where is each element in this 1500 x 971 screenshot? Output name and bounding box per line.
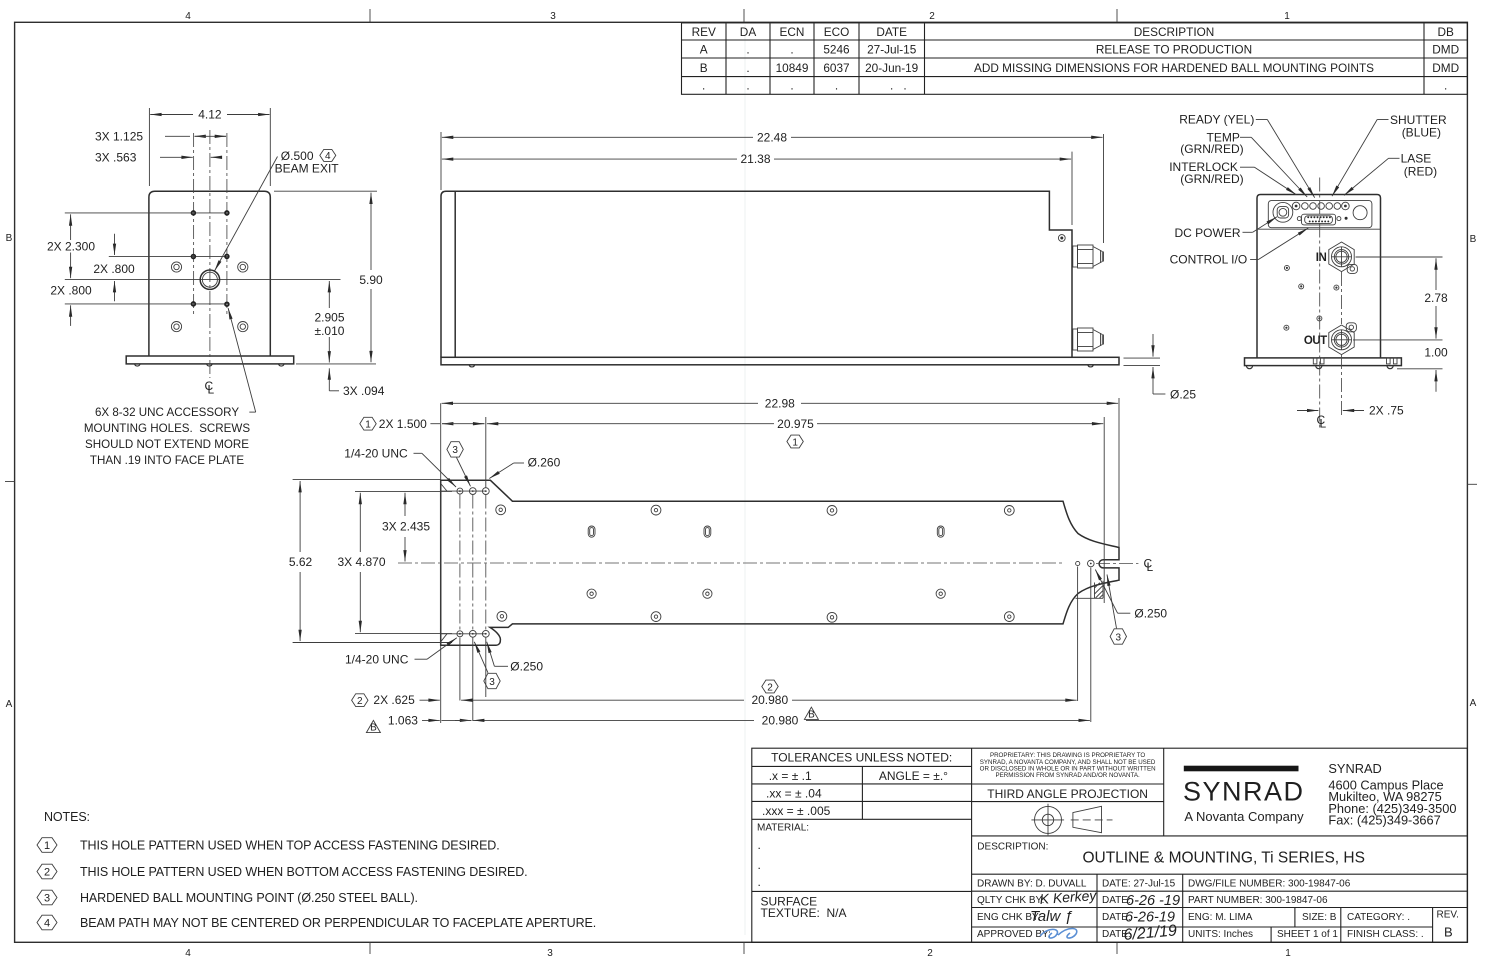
label dia .250 bottom with leader [487,642,544,674]
svg-text:MOUNTING HOLES. SCREWS: MOUNTING HOLES. SCREWS [84,422,250,435]
svg-text:3: 3 [44,893,50,905]
svg-text:TOLERANCES UNLESS NOTED:: TOLERANCES UNLESS NOTED: [771,751,952,765]
svg-text:THAN .19 INTO FACE PLATE: THAN .19 INTO FACE PLATE [90,454,244,467]
svg-text:L: L [208,383,215,397]
svg-text:4.12: 4.12 [198,108,222,122]
svg-text:.: . [746,61,749,75]
side view upper fitting [1073,245,1104,268]
svg-text:IN: IN [1316,252,1327,264]
front view faceplate outline [149,191,270,356]
note 4 hexagon [37,915,596,930]
rear view DC power connector [1273,202,1293,222]
label 1/4-20 UNC top [344,446,456,487]
projection symbol [1031,804,1112,836]
side view faceplate edge [441,191,455,357]
svg-text:MATERIAL:: MATERIAL: [757,822,809,833]
front view 8-32 hole 4 [225,255,229,259]
note 3 hexagon [37,890,418,905]
dimension 5.90 [274,191,383,362]
svg-text:2: 2 [767,682,773,693]
rear view centerline symbol [1317,413,1327,431]
bottom view chamfer top-left [441,484,447,492]
svg-text:3X .094: 3X .094 [343,384,385,398]
svg-text:ENG: M. LIMA: ENG: M. LIMA [1188,912,1253,923]
side view body outline [455,191,1072,357]
svg-text:THIRD ANGLE PROJECTION: THIRD ANGLE PROJECTION [987,787,1148,801]
svg-text:20.980: 20.980 [762,713,799,727]
revision table row B [700,61,1459,75]
svg-text:RELEASE TO PRODUCTION: RELEASE TO PRODUCTION [1096,43,1252,57]
proprietary paragraph [980,752,1156,779]
svg-text:2X .75: 2X .75 [1369,404,1404,418]
dimension 2X 2.300 [47,214,95,278]
front view base flange [126,356,294,364]
leader temp [1240,136,1251,138]
zone tick bottom 1/2 [1116,942,1118,954]
leader ready [1256,119,1268,121]
svg-text:.: . [790,79,793,93]
svg-text:Ø.260: Ø.260 [528,455,561,469]
bottom view ring hole bot 4 [1004,612,1014,622]
rear view hole a [1284,265,1289,270]
leader lase [1389,157,1400,159]
svg-text:HARDENED BALL MOUNTING POINT (: HARDENED BALL MOUNTING POINT (Ø.250 STEE… [80,891,418,905]
svg-text:2X .625: 2X .625 [373,693,415,707]
svg-text:.: . [1444,79,1447,93]
svg-text:REV: REV [692,25,716,39]
dimension 21.38 [442,152,1072,225]
zone tick top 3/4 [369,9,371,22]
rear view flange slot center right [1320,358,1324,364]
svg-text:B: B [6,233,13,244]
bottom view chamfer bottom-left [441,634,447,642]
svg-text:.xxx = ± .005: .xxx = ± .005 [762,804,831,818]
svg-text:6-26 -19: 6-26 -19 [1126,893,1180,909]
dimension 3X .563 [95,150,222,164]
side view foot right [1088,365,1094,367]
svg-text:2: 2 [927,948,933,959]
front view ring hole lower-right [238,322,248,332]
svg-text:.: . [746,43,749,57]
svg-text:1/4-20 UNC: 1/4-20 UNC [345,652,409,666]
bottom view 1/4-20 hole T1 [457,488,463,494]
rear view DB15 jack screw left [1297,217,1301,221]
bottom view 1/4-20 hole B2 [469,630,476,637]
hexagon 3 bottom with leader [474,642,500,689]
column line nozzle hole2 [1090,568,1092,723]
note 6X 8-32 UNC accessory mounting holes [84,406,250,467]
svg-text:DATE: DATE [876,25,907,39]
svg-text:THIS HOLE PATTERN USED WHEN TO: THIS HOLE PATTERN USED WHEN TOP ACCESS F… [80,839,500,853]
bottom view ring hole mid 3 [936,589,945,598]
svg-text:.x = ± .1: .x = ± .1 [769,769,812,783]
svg-text:OUT: OUT [1304,335,1327,347]
label dia .260 with leader [489,455,560,478]
svg-text:3X .563: 3X .563 [95,150,137,164]
front view foot 3 [279,364,285,366]
svg-text:4: 4 [44,918,50,930]
bottom view 1/4-20 hole B3 [482,630,489,637]
bottom view ring hole bot 2 [651,612,661,622]
rear view hole e [1284,325,1289,330]
svg-text:Ø.250: Ø.250 [510,660,543,674]
svg-text:3: 3 [547,948,553,959]
zone tick bottom 2/3 [743,942,745,954]
dimension 1.063 row B with triangle [366,713,471,733]
front view row line middle holes [109,255,229,257]
bottom view ring hole top 2 [651,505,661,515]
svg-text:SYNRAD: SYNRAD [1183,777,1305,807]
rear view LED ready [1292,202,1300,210]
svg-text:10849: 10849 [776,61,809,75]
svg-text:SHOULD NOT EXTEND MORE: SHOULD NOT EXTEND MORE [85,438,249,451]
revision table grid [682,23,1468,94]
label 1/4-20 UNC bottom [345,638,457,667]
svg-text:2.78: 2.78 [1424,291,1448,305]
svg-text:1: 1 [1285,948,1291,959]
bottom view horizontal centerline [398,562,1065,564]
bottom view nozzle ball hole [1088,560,1095,567]
rear view fitting centerline [1341,272,1343,324]
svg-text:3: 3 [489,677,495,688]
svg-text:.: . [702,79,705,93]
dimension 20.980 row B with triangle [473,707,1090,727]
svg-text:ANGLE = ±.°: ANGLE = ±.° [879,769,948,783]
bottom view 1/4-20 hole T3 [482,488,489,495]
svg-text:ECO: ECO [824,25,850,39]
svg-text:Fax: (425)349-3667: Fax: (425)349-3667 [1328,813,1440,828]
svg-text:.: . [835,79,838,93]
svg-text:SIZE: B: SIZE: B [1302,912,1337,923]
front view centerline symbol [205,379,215,397]
rear view shutter aperture circle [1353,206,1367,220]
svg-text:PERMISSION FROM SYNRAD AND/OR: PERMISSION FROM SYNRAD AND/OR NOVANTA. [996,772,1140,779]
front view foot 1 [135,364,141,366]
svg-text:L: L [1147,560,1154,574]
bottom view slot 3 [937,526,944,537]
svg-text:(GRN/RED): (GRN/RED) [1180,142,1243,156]
bottom view ring hole top 4 [1004,506,1014,516]
svg-text:DMD: DMD [1432,43,1459,57]
svg-text:.xx = ± .04: .xx = ± .04 [766,786,822,800]
bottom view plate outline [441,480,1119,645]
svg-text:NOTES:: NOTES: [44,810,90,824]
bottom view slot 1 [588,526,595,537]
dimension 2X 1.500 with hexagon 1 [360,417,485,431]
svg-text:B: B [1470,234,1477,245]
leader control io [1250,259,1258,261]
svg-text:L: L [1320,417,1327,431]
dimension 2.78 [1353,257,1448,340]
svg-text:5.90: 5.90 [359,273,383,287]
svg-text:6037: 6037 [823,61,849,75]
rear view foot left [1246,366,1252,369]
svg-text:.: . [903,79,906,93]
svg-text:1/4-20 UNC: 1/4-20 UNC [344,446,408,460]
dimension 4.12 [149,108,270,186]
front view center row line [65,279,341,281]
svg-text:.: . [746,79,749,93]
front view 8-32 hole 1 [192,211,196,215]
svg-text:2: 2 [929,11,935,22]
svg-text:FINISH CLASS: .: FINISH CLASS: . [1347,929,1424,940]
svg-text:22.48: 22.48 [757,130,787,144]
dimension 22.48 [441,130,1104,243]
svg-text:SYNRAD: SYNRAD [1328,761,1381,776]
svg-text:3X 4.870: 3X 4.870 [337,555,385,569]
svg-text:1: 1 [1284,11,1290,22]
front view hole column centerline right [226,133,228,316]
dimension 1.00 [1397,346,1448,392]
bottom view slot 2 [704,526,711,537]
rear view DB15 pins [1307,216,1331,222]
svg-text:20.980: 20.980 [751,693,788,707]
right ext line 22.98 [1118,398,1120,547]
bottom view bottom hole row edge [441,633,487,635]
svg-text:BEAM PATH MAY NOT BE CENTERED: BEAM PATH MAY NOT BE CENTERED OR PERPEND… [80,916,596,930]
rear view LED 3 [1310,203,1317,210]
rear view flange slot right 1 [1387,358,1391,364]
note 1 hexagon [37,838,500,853]
front view 8-32 hole 5 [192,302,196,306]
svg-text:THIS HOLE PATTERN USED WHEN BO: THIS HOLE PATTERN USED WHEN BOTTOM ACCES… [80,865,528,879]
svg-text:1: 1 [44,840,50,852]
side view rear screw [1058,235,1065,242]
bottom view ring hole top 3 [827,506,837,516]
zone tick top 1/2 [1116,9,1118,22]
address block [1328,761,1456,828]
svg-text:TEXTURE: N/A: TEXTURE: N/A [761,906,847,920]
bottom view 1/4-20 hole B1 [457,631,463,637]
svg-text:2: 2 [357,696,363,707]
svg-text:2X .800: 2X .800 [50,283,92,297]
bottom view centerline symbol [1144,557,1154,575]
svg-text:1.00: 1.00 [1424,346,1448,360]
handwriting approved signature blue [1040,929,1077,939]
bottom view ball insert hatch [1076,581,1104,599]
svg-text:.: . [758,875,761,889]
rear view hole c [1334,285,1339,290]
front view 8-32 hole 2 [225,211,229,215]
svg-text:±.010: ±.010 [315,324,345,338]
svg-text:READY (YEL): READY (YEL) [1179,113,1254,127]
paper fold line [744,25,746,935]
svg-text:B: B [808,709,815,720]
svg-text:B: B [1444,925,1453,940]
bottom view ring hole bot 1 [497,611,507,621]
dimension 2X .800 lower [50,283,92,326]
zone tick right A/B [1467,483,1477,485]
dimension 2X .625 row with hexagon 2 [352,693,478,707]
zone tick left A/B [5,481,15,483]
rear view DB15 control connector [1302,214,1336,225]
dimension 3X 1.125 [95,129,226,143]
dimension 3X 2.435 [382,493,430,562]
SYNRAD logo bar [1184,766,1299,772]
revision table header row [692,25,1454,39]
svg-text:3: 3 [452,445,458,456]
front view beam exit circle [200,270,219,289]
dimension 3X .094 [329,368,384,398]
front view foot 2 [207,364,213,366]
svg-text:DMD: DMD [1432,61,1459,75]
front view ring hole lower-left [171,322,181,332]
svg-text:A: A [1470,698,1477,709]
svg-text:ADD MISSING DIMENSIONS FOR HAR: ADD MISSING DIMENSIONS FOR HARDENED BALL… [974,61,1374,75]
dimension dia .25 side view [1124,334,1197,401]
title block grid [752,748,1468,942]
svg-text:(RED): (RED) [1404,164,1437,178]
svg-text:CONTROL I/O: CONTROL I/O [1170,253,1248,267]
svg-text:.: . [790,43,793,57]
leader shutter [1377,119,1388,121]
svg-text:SHEET 1 of 1: SHEET 1 of 1 [1277,929,1338,940]
svg-text:6X 8-32 UNC ACCESSORY: 6X 8-32 UNC ACCESSORY [95,406,239,419]
revision table row A [700,43,1459,57]
side view base plate [441,357,1119,365]
column line hole3 [485,417,487,488]
svg-text:.: . [890,79,893,93]
rear view flange slot center left [1313,358,1317,364]
bottom view left ext line [440,403,442,723]
column line hole1 [459,495,461,631]
svg-text:2X .800: 2X .800 [93,262,135,276]
svg-text:(GRN/RED): (GRN/RED) [1180,172,1243,186]
svg-text:DC POWER: DC POWER [1175,226,1241,240]
svg-text:REV.: REV. [1437,910,1459,921]
rear view IN fitting [1329,242,1358,273]
svg-text:3X 2.435: 3X 2.435 [382,519,430,533]
svg-text:ECN: ECN [780,25,805,39]
bottom view ring hole bot 3 [827,612,837,622]
svg-text:DB: DB [1438,25,1455,39]
svg-text:3: 3 [1116,632,1122,643]
side view lower fitting [1073,328,1104,351]
front view row line top holes [65,212,229,214]
svg-text:1: 1 [365,420,371,431]
rear view LED 2 [1302,203,1309,210]
svg-text:Ø.250: Ø.250 [1134,606,1167,620]
front view 8-32 hole 3 [192,255,196,259]
column line nozzle hole1 [1077,567,1079,702]
rear view base flange [1245,358,1402,366]
svg-text:22.98: 22.98 [765,396,795,410]
svg-text:1: 1 [792,437,798,448]
zone tick top 2/3 [743,9,745,22]
leader dc power [1243,231,1253,233]
front view ring hole upper-right [238,262,248,272]
column line hole2 [472,495,474,631]
svg-text:20.975: 20.975 [777,417,814,431]
front view hole column centerline left [193,133,195,316]
svg-text:21.38: 21.38 [740,152,770,166]
rear view hole d [1317,316,1322,321]
svg-text:4: 4 [185,11,191,22]
bottom view top hole row edge [441,490,487,492]
label beam exit with hexagon 4 [215,149,340,271]
note 2 hexagon [37,864,528,879]
svg-text:OUTLINE & MOUNTING, Ti SERIES,: OUTLINE & MOUNTING, Ti SERIES, HS [1082,850,1364,867]
svg-text:.: . [758,858,761,872]
column line nozzle 20.975 [1103,417,1105,603]
svg-text:DESCRIPTION: DESCRIPTION [1134,25,1215,39]
svg-text:27-Jul-15: 27-Jul-15 [867,43,917,57]
svg-text:4: 4 [185,948,191,959]
front view ring hole upper-left [171,262,181,272]
rear view LED 4 [1318,203,1325,210]
rear view panel bottom line [1257,228,1381,230]
svg-text:2: 2 [44,867,50,879]
rear view body outline [1257,195,1381,358]
leader 6X 8-32 to hole [228,308,256,412]
bottom view ring hole mid 2 [703,589,712,598]
rear view hole b [1299,284,1304,289]
front view 8-32 hole 6 [225,302,229,306]
dimension 2.905 +/-.010 [296,281,376,364]
rear view LED lase [1342,202,1350,210]
bottom view 1/4-20 hole T2 [469,488,476,495]
svg-text:APPROVED BY:: APPROVED BY: [977,929,1051,940]
rear view flange slot right 2 [1393,358,1397,364]
svg-text:.: . [758,838,761,852]
svg-text:3: 3 [550,11,556,22]
svg-text:Ø.25: Ø.25 [1170,387,1196,401]
leader interlock [1240,166,1255,168]
dimension 22.98 [442,396,1119,410]
svg-text:BEAM EXIT: BEAM EXIT [275,161,340,175]
hexagon 3 nozzle with leader [1107,575,1127,645]
svg-text:DESCRIPTION:: DESCRIPTION: [977,841,1048,852]
bottom view nozzle hole small [1076,561,1080,565]
svg-text:20-Jun-19: 20-Jun-19 [865,61,918,75]
revision table empty row [702,79,1447,93]
svg-text:PART NUMBER: 300-19847-06: PART NUMBER: 300-19847-06 [1188,895,1328,906]
svg-text:A Novanta Company: A Novanta Company [1184,809,1304,824]
bottom view ring hole top 1 [496,505,506,515]
dimension 2X .75 [1297,404,1404,418]
svg-text:B: B [370,723,377,734]
svg-text:DWG/FILE NUMBER: 300-19847-06: DWG/FILE NUMBER: 300-19847-06 [1188,879,1351,890]
svg-text:DRAWN BY: D. DUVALL: DRAWN BY: D. DUVALL [977,879,1087,890]
svg-text:Talw ƒ: Talw ƒ [1030,908,1073,925]
dimension 2X .800 upper [93,234,135,302]
rear view DB15 jack screw right [1337,217,1341,221]
svg-text:2X 2.300: 2X 2.300 [47,239,95,253]
svg-text:DATE: 27-Jul-15: DATE: 27-Jul-15 [1102,879,1176,890]
bottom view ring hole mid 1 [587,589,596,598]
rear view small dot right of jack screw [1345,217,1348,220]
front view vertical centerline [209,130,211,378]
dimension 20.975 with hexagon 1 [487,417,1103,448]
svg-text:3X 1.125: 3X 1.125 [95,129,143,143]
dimension 3X 4.870 [337,491,452,633]
zone tick bottom 3/4 [369,942,371,954]
svg-text:UNITS: Inches: UNITS: Inches [1188,929,1253,940]
rear view main centerline [1319,178,1321,429]
rear view LED 6 [1334,203,1341,210]
svg-text:5246: 5246 [823,43,850,57]
svg-text:2X 1.500: 2X 1.500 [379,417,427,431]
rear view foot center [1316,366,1322,369]
rear view LED 5 [1326,203,1333,210]
svg-text:(BLUE): (BLUE) [1402,126,1441,140]
dimension 5.62 [289,480,452,643]
svg-text:5.62: 5.62 [289,555,313,569]
rear view connector panel recess [1268,201,1372,228]
hexagon 3 top with leader [447,442,471,487]
front view row line bottom holes [65,303,229,305]
svg-text:A: A [700,43,708,57]
